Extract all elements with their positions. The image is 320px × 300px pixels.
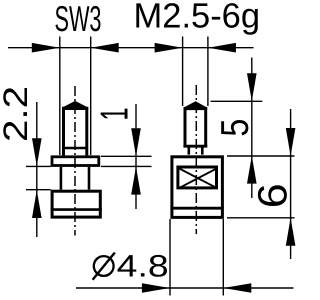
left stud side right — [85, 108, 88, 155]
right stud top line — [184, 107, 208, 110]
svg-text:SW3: SW3 — [55, 0, 102, 39]
svg-text:6: 6 — [250, 183, 296, 208]
right body inner line — [170, 207, 224, 210]
svg-text:4.8: 4.8 — [117, 249, 169, 284]
right stud side right — [204, 108, 207, 146]
extension line dia4.8 left — [169, 219, 171, 296]
extension line SW3 right — [90, 37, 92, 156]
arrow dim5 top — [247, 73, 257, 101]
arrow dia4.8 right — [223, 283, 251, 293]
right stud chamfer tent — [184, 101, 208, 107]
left stud side left — [62, 108, 65, 155]
dimension line top shared — [8, 47, 254, 49]
left body — [52, 191, 100, 217]
extension line SW3 left — [59, 37, 61, 156]
arrow M2.5 right — [208, 43, 236, 53]
arrow dia4.8 left — [142, 283, 170, 293]
extension line M2.5 left — [182, 37, 184, 107]
diameter symbol slash — [93, 253, 115, 280]
extension line dim5 top — [211, 100, 263, 102]
extension line dim1 top — [101, 155, 152, 157]
arrow dim6 bottom — [286, 218, 296, 246]
arrow dim5 bottom — [247, 156, 257, 184]
right stud side left — [184, 108, 187, 146]
left stud top line — [62, 107, 88, 110]
crossed box — [178, 167, 217, 188]
extension line M2.5 right — [207, 37, 209, 107]
diameter symbol circle — [94, 256, 114, 276]
arrow dim6 top — [286, 128, 296, 156]
extension line dim6 bottom — [227, 217, 295, 219]
dimension line dia4.8 — [76, 287, 294, 289]
arrow dim2.2 top — [32, 138, 42, 166]
left stud chamfer tent — [62, 101, 88, 108]
arrow SW3 right — [91, 43, 119, 53]
svg-text:2.2: 2.2 — [0, 86, 35, 142]
right body — [172, 157, 223, 218]
right neck side right — [201, 146, 204, 154]
extension line dim6 top — [227, 155, 295, 157]
right stud bottom line — [183, 145, 207, 148]
svg-text:M2.5-6g: M2.5-6g — [134, 0, 261, 36]
dimension line 2.2 — [36, 102, 38, 237]
right neck side left — [188, 146, 191, 154]
svg-text:5: 5 — [214, 119, 257, 137]
crossed box diagonal 1 — [180, 169, 217, 188]
extension line dim1 bottom — [101, 165, 152, 167]
left flange — [52, 157, 99, 166]
left hex neck side left — [60, 167, 63, 190]
crossed box diagonal 2 — [180, 169, 217, 188]
arrow M2.5 left — [155, 43, 183, 53]
arrow dim2.2 bottom — [32, 190, 42, 218]
left stud bottom divider — [62, 147, 88, 150]
centerline right figure — [195, 85, 197, 234]
left hex neck side right — [88, 167, 91, 190]
arrow dim1 top — [131, 128, 141, 156]
extension line dim2.2 bottom — [26, 189, 51, 191]
dimension line 1 — [135, 104, 137, 209]
svg-text:1: 1 — [93, 108, 136, 121]
extension line dim2.2 top — [26, 165, 51, 167]
dimension line 5 — [251, 58, 253, 199]
extension line dia4.8 right — [222, 219, 224, 296]
centerline left figure — [74, 86, 76, 236]
left body inner line — [51, 208, 102, 211]
arrow SW3 left — [32, 43, 60, 53]
arrow dim1 bottom — [131, 167, 141, 195]
dimension line 6 — [290, 109, 292, 259]
